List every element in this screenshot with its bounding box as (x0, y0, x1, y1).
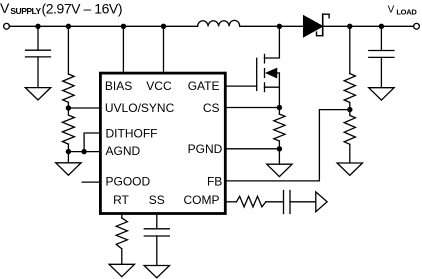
junction UVLO tap (66, 105, 71, 110)
svg-text:RT: RT (113, 193, 129, 207)
wire output cap to ground (380, 57, 382, 87)
ground FB divider (337, 163, 362, 175)
wire to resistor RUV1 (67, 26, 69, 74)
wire CS to resistor (278, 108, 280, 115)
junction FB divider top (347, 24, 352, 29)
junction CS (277, 105, 282, 110)
resistor RFB2 (344, 110, 355, 145)
svg-text:DITHOFF: DITHOFF (106, 127, 158, 141)
junction UVLO divider (66, 24, 71, 29)
wire ground stub AGND (67, 152, 69, 163)
wire COMP pin (226, 201, 236, 203)
node VLOAD label (388, 4, 418, 16)
resistor RFB1 (344, 74, 355, 103)
ground RT (109, 264, 134, 276)
svg-text:BIAS: BIAS (105, 79, 132, 93)
wire VCC pin (163, 26, 165, 71)
svg-text:UVLO/SYNC: UVLO/SYNC (105, 101, 175, 115)
wire UVLO/SYNC pin (68, 107, 100, 109)
wire CS pin (226, 107, 279, 109)
wire RT pin (121, 214, 123, 219)
svg-text:PGND: PGND (188, 142, 223, 156)
junction FB tap (347, 107, 352, 112)
svg-text:SUPPLY: SUPPLY (10, 6, 41, 16)
wire source (265, 87, 280, 107)
svg-text:V: V (0, 0, 10, 16)
junction input cap (35, 24, 40, 29)
junction DITHOFF tie (81, 149, 86, 154)
wire PGND to ground (278, 149, 280, 164)
wire RT resistor to ground (121, 249, 123, 264)
ground SS (144, 266, 169, 278)
wire CSS to ground (156, 236, 158, 266)
wire to output cap (380, 26, 382, 50)
IC U1 boost controller (100, 73, 225, 213)
junction PGND (277, 146, 282, 151)
capacitor CIN (26, 50, 51, 57)
svg-text:COMP: COMP (184, 193, 220, 207)
resistor RSENSE (274, 114, 285, 141)
transistor Q1 (257, 54, 280, 91)
resistor RUV2 (62, 108, 74, 144)
terminal VLOAD (414, 23, 420, 29)
wire to input cap (37, 26, 39, 50)
ground PGND (267, 164, 292, 176)
ground input cap (25, 88, 50, 100)
capacitor COUT (369, 51, 394, 58)
wire top rail input section (9, 25, 197, 27)
svg-text:V: V (388, 4, 395, 15)
wire RCOMP to CCOMP (266, 201, 284, 203)
wire gate (226, 85, 257, 87)
wire drain (265, 26, 280, 58)
svg-text:AGND: AGND (106, 144, 141, 158)
svg-text:SS: SS (149, 193, 165, 207)
svg-text:PGOOD: PGOOD (106, 175, 151, 189)
wire inductor to diode (240, 25, 304, 27)
wire RUV2 to ground node (67, 144, 69, 152)
svg-text:LOAD: LOAD (396, 7, 417, 16)
junction AGND ground (66, 149, 71, 154)
junction VCC (161, 24, 166, 29)
wire diode to output terminal (323, 25, 414, 27)
resistor RCOMP (236, 196, 266, 207)
ground output cap (369, 88, 394, 100)
junction BIAS (121, 24, 126, 29)
wire RFB2 to ground (349, 144, 351, 163)
svg-text:CS: CS (203, 101, 220, 115)
resistor RUV1 (63, 74, 74, 102)
svg-text:GATE: GATE (188, 79, 220, 93)
wire BIAS pin (122, 26, 124, 71)
wire resistor to PGND node (278, 141, 280, 149)
svg-text:(2.97V – 16V): (2.97V – 16V) (42, 1, 123, 17)
wire CCOMP to ground (290, 201, 316, 203)
terminal VSUPPLY (4, 23, 10, 29)
capacitor CCOMP (284, 191, 291, 214)
node VSUPPLY label (0, 0, 122, 16)
inductor L1 (198, 20, 240, 26)
junction output cap (379, 24, 384, 29)
junction switch node top (277, 24, 282, 29)
wire PGND pin (226, 148, 279, 150)
wire AGND pin (68, 151, 100, 153)
wire middle body (278, 73, 280, 87)
diode D1 (304, 14, 330, 37)
ground COMP sideways (316, 192, 327, 212)
ground AGND (56, 163, 81, 175)
wire SS pin (156, 214, 158, 229)
svg-text:VCC: VCC (146, 79, 172, 93)
wire RFB1 to tap (349, 103, 351, 110)
resistor RT (116, 218, 127, 249)
svg-text:FB: FB (207, 175, 222, 189)
wire input cap to ground (37, 57, 39, 88)
wire FB pin path (226, 110, 350, 181)
wire RUV1 to junction (67, 102, 69, 108)
wire to RFB1 (349, 26, 351, 73)
wire PGOOD stub (82, 181, 100, 183)
wire DITHOFF pin (84, 133, 100, 152)
capacitor CSS (144, 229, 169, 236)
